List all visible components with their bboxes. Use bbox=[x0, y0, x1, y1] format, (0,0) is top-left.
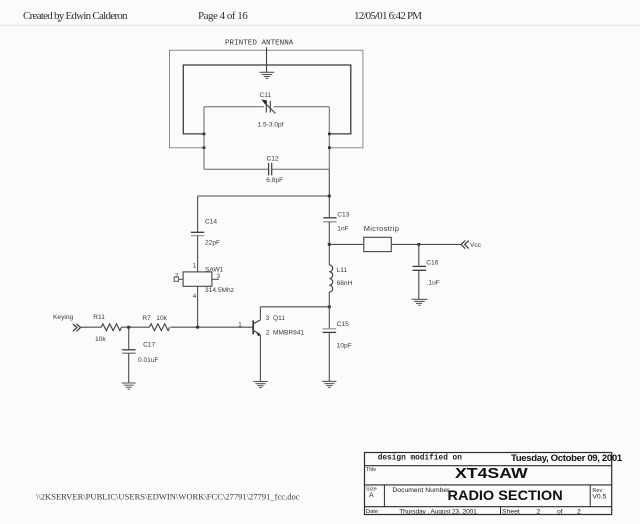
wire: horizontal to C14 branch bbox=[198, 195, 330, 197]
svg-text:4: 4 bbox=[193, 293, 197, 300]
svg-text:1: 1 bbox=[238, 321, 242, 328]
collector wire to main column bbox=[260, 306, 329, 308]
wire from keying port to R11 bbox=[81, 326, 102, 328]
Q11 emitter arrowhead bbox=[256, 332, 261, 336]
wire C16 to ground bbox=[418, 270, 420, 299]
svg-text:314.5Mhz: 314.5Mhz bbox=[205, 287, 234, 294]
svg-text:Title: Title bbox=[366, 467, 376, 473]
svg-text:.1uF: .1uF bbox=[427, 280, 440, 287]
svg-text:C13: C13 bbox=[337, 211, 349, 218]
svg-text:Created by Edwin Calderon: Created by Edwin Calderon bbox=[23, 10, 128, 22]
svg-text:0.01uF: 0.01uF bbox=[138, 357, 159, 364]
svg-text:Thursday , August 23, 2001: Thursday , August 23, 2001 bbox=[399, 508, 477, 515]
svg-text:10k: 10k bbox=[95, 336, 106, 343]
wire R7 to Q11 base bbox=[171, 326, 254, 328]
junction dots antenna bbox=[203, 133, 331, 149]
wire R11 to R7 bbox=[122, 326, 150, 328]
SAW1 pin 4 wire down bbox=[197, 286, 199, 327]
capacitor C14 bbox=[191, 232, 204, 235]
svg-text:6.8pF: 6.8pF bbox=[266, 177, 283, 184]
SAW1 pin 3 lead bbox=[212, 278, 219, 280]
junction dot at SAW1 column bbox=[196, 326, 199, 329]
svg-text:C16: C16 bbox=[426, 259, 438, 266]
transistor Q11 bbox=[253, 320, 260, 334]
title block row line 3 bbox=[365, 506, 612, 508]
header rule (faint scan line) bbox=[0, 25, 640, 27]
wire: C14 to SAW1 bbox=[197, 236, 199, 272]
ground (Q11 emitter) bbox=[253, 382, 267, 388]
svg-text:C17: C17 bbox=[143, 342, 155, 349]
title block outer box bbox=[365, 453, 612, 515]
antenna ground stem bbox=[266, 47, 268, 72]
wire L11 to C15 bbox=[328, 292, 330, 329]
svg-text:3 Q11: 3 Q11 bbox=[266, 315, 286, 322]
capacitor C13 bbox=[323, 218, 336, 222]
Vcc port connector bbox=[461, 241, 469, 249]
ground (C17) bbox=[122, 383, 136, 389]
resistor R7 bbox=[149, 324, 169, 331]
SAW resonator SAW1 box bbox=[183, 272, 212, 286]
wire C15 to ground bbox=[328, 332, 330, 381]
microstrip box bbox=[364, 237, 392, 251]
capacitor C12 (inline plates) bbox=[269, 163, 272, 175]
svg-text:C14: C14 bbox=[205, 218, 217, 225]
svg-text:Sheet: Sheet bbox=[502, 508, 520, 515]
svg-text:design modified on: design modified on bbox=[378, 454, 463, 462]
svg-text:A: A bbox=[369, 492, 374, 499]
svg-text:R7: R7 bbox=[142, 315, 151, 322]
svg-text:1: 1 bbox=[193, 263, 197, 270]
wire: feed node down from antenna to C13 bbox=[328, 169, 330, 218]
junction dot at C17 tap bbox=[127, 326, 130, 329]
capacitor C11 (variable, inline) bbox=[264, 101, 276, 114]
antenna feed loop (C11/C12 rectangle sides) bbox=[204, 107, 329, 170]
title block divider rev column bbox=[589, 485, 591, 507]
svg-text:10k: 10k bbox=[156, 315, 167, 322]
capacitor C15 bbox=[323, 329, 337, 333]
svg-text:Vcc: Vcc bbox=[470, 242, 482, 249]
svg-text:2 MMBR941: 2 MMBR941 bbox=[266, 329, 305, 336]
node dot at x329/y196 bbox=[328, 195, 331, 198]
ground (antenna) bbox=[260, 72, 275, 78]
svg-text:SAW1: SAW1 bbox=[205, 266, 224, 273]
svg-text:Tuesday, October 09, 2001: Tuesday, October 09, 2001 bbox=[511, 453, 623, 464]
svg-text:XT4SAW: XT4SAW bbox=[455, 465, 528, 481]
svg-text:1.5-3.0pf: 1.5-3.0pf bbox=[258, 122, 284, 129]
svg-text:Page 4 of 16: Page 4 of 16 bbox=[198, 10, 248, 22]
inductor L11 bbox=[329, 265, 332, 292]
svg-text:\\2KSERVER\PUBLIC\USERS\EDWIN\: \\2KSERVER\PUBLIC\USERS\EDWIN\WORK\FCC\2… bbox=[36, 492, 300, 502]
Keying input port connector bbox=[73, 324, 81, 331]
svg-text:1nF: 1nF bbox=[337, 225, 348, 232]
svg-text:V0.5: V0.5 bbox=[592, 494, 606, 501]
antenna outer loop rectangle (gap in bottom middle) bbox=[170, 50, 363, 147]
title block row line 1 bbox=[365, 465, 612, 467]
svg-text:10pF: 10pF bbox=[337, 343, 352, 350]
junction dot C16 tap bbox=[417, 243, 420, 246]
antenna inner loop rectangle (gap in bottom middle) bbox=[183, 65, 350, 134]
svg-text:Document Number: Document Number bbox=[392, 487, 450, 494]
capacitor C17 bbox=[122, 350, 136, 353]
SAW1 pin 2 lead + pad bbox=[179, 278, 184, 280]
svg-text:R11: R11 bbox=[93, 314, 105, 321]
svg-text:PRINTED ANTENNA: PRINTED ANTENNA bbox=[225, 40, 294, 48]
svg-text:L11: L11 bbox=[337, 267, 348, 274]
svg-text:Keying: Keying bbox=[53, 314, 73, 321]
svg-text:Microstrip: Microstrip bbox=[364, 224, 400, 233]
svg-text:2: 2 bbox=[175, 273, 179, 280]
svg-text:C12: C12 bbox=[267, 155, 279, 162]
junction dot collector/main column bbox=[328, 305, 331, 308]
svg-text:68nH: 68nH bbox=[337, 280, 353, 287]
svg-text:RADIO SECTION: RADIO SECTION bbox=[448, 488, 563, 503]
title block divider sheet column bbox=[500, 507, 502, 515]
wire C17 to ground bbox=[128, 353, 130, 383]
svg-text:Date: Date bbox=[366, 509, 378, 515]
svg-text:12/05/01 6:42 PM: 12/05/01 6:42 PM bbox=[354, 10, 422, 22]
svg-text:22pF: 22pF bbox=[205, 239, 220, 246]
capacitor C17 branch wire bbox=[128, 327, 130, 350]
wire: down to C14 bbox=[197, 196, 199, 232]
scan fleck bbox=[58, 20, 60, 22]
svg-text:of: of bbox=[557, 508, 563, 515]
svg-text:2: 2 bbox=[537, 508, 541, 515]
ground (C15) bbox=[322, 381, 336, 387]
Q11 collector wire up bbox=[259, 307, 261, 320]
wire Vcc node to C16 bbox=[418, 244, 420, 266]
capacitor C16 bbox=[413, 266, 427, 270]
wire C13 to microstrip node bbox=[328, 222, 330, 265]
svg-text:3: 3 bbox=[217, 273, 221, 280]
ground (C16) bbox=[412, 299, 428, 305]
junction dot at microstrip tap bbox=[328, 243, 331, 246]
svg-text:C15: C15 bbox=[337, 321, 349, 328]
wire main column to microstrip bbox=[329, 243, 364, 245]
wire microstrip to Vcc bbox=[391, 243, 461, 245]
title block divider size column bbox=[383, 485, 385, 507]
resistor R11 bbox=[101, 324, 121, 331]
Q11 emitter wire down bbox=[259, 335, 261, 382]
title block row line 2 bbox=[365, 484, 612, 486]
svg-text:C11: C11 bbox=[260, 92, 272, 99]
svg-text:2: 2 bbox=[577, 508, 581, 515]
